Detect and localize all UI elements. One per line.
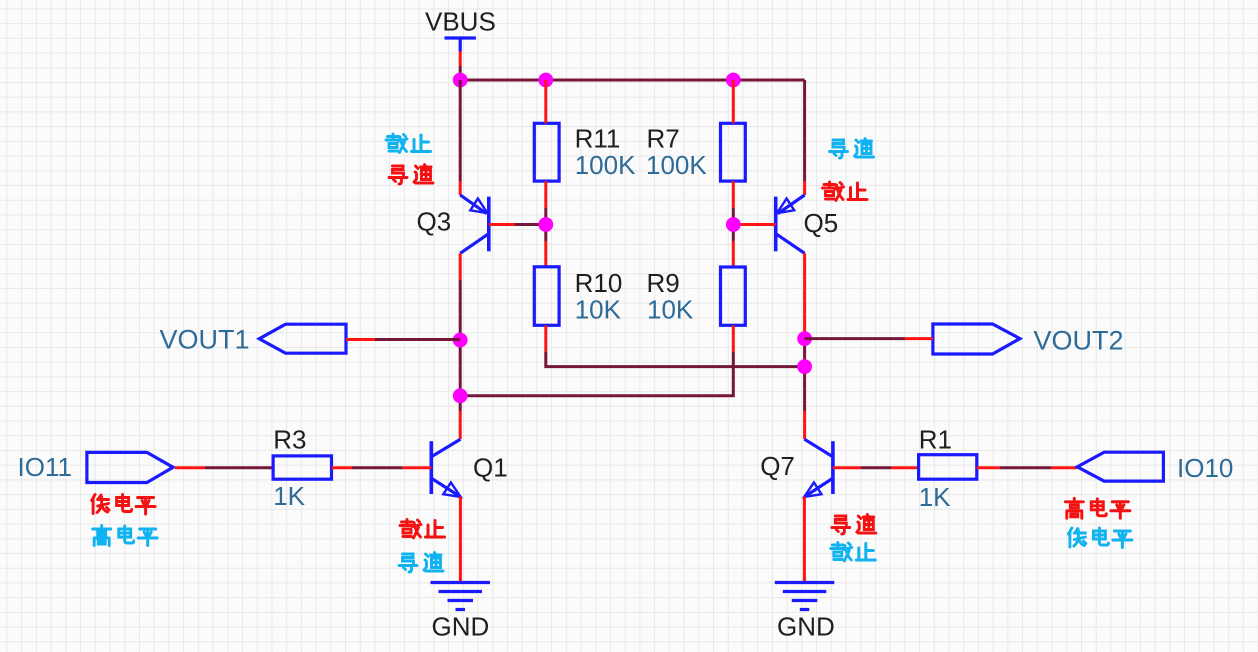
svg-text:10K: 10K	[647, 294, 694, 324]
resistor R11	[534, 123, 559, 181]
wire Q3 collector down to Q1	[459, 253, 462, 439]
annotation 高电平 (red) at IO10	[1065, 498, 1130, 518]
port VOUT1	[259, 324, 346, 353]
annotation 截止 (red) at Q1	[400, 520, 445, 539]
annotation 截止 (cyan) at Q7	[831, 543, 876, 562]
annotation 导通 (cyan) at Q1	[399, 553, 443, 573]
annotation 导通 (red) at Q3	[389, 165, 433, 185]
resistor R3	[273, 456, 331, 479]
svg-text:GND: GND	[777, 612, 835, 642]
port IO10	[1077, 452, 1163, 481]
svg-text:1K: 1K	[919, 482, 951, 512]
svg-text:IO11: IO11	[18, 452, 72, 482]
junction node rail-R11	[538, 73, 553, 88]
resistor R10	[534, 267, 559, 326]
wire Q5 collector down to Q7	[803, 253, 806, 439]
annotation 高电平 (cyan) at IO11	[93, 526, 158, 546]
wire Q7 emitter to GND	[803, 497, 806, 581]
wire R7 to Q5 base node	[732, 181, 735, 267]
wire R1 to IO10	[977, 466, 1078, 469]
wire R9 bottom cross-couple to Q1 collector node	[460, 325, 733, 396]
annotation 导通 (cyan) at Q5	[830, 139, 874, 159]
wire R3 to Q1 base	[332, 466, 432, 469]
svg-text:1K: 1K	[273, 481, 305, 511]
annotation 导通 (red) at Q7	[832, 515, 876, 535]
ground GND (left)	[431, 583, 491, 610]
svg-text:VOUT1: VOUT1	[160, 325, 250, 355]
ground GND (right)	[775, 583, 835, 610]
svg-text:100K: 100K	[575, 150, 636, 180]
svg-text:VBUS: VBUS	[425, 7, 496, 37]
wire Q3 base to node	[489, 223, 546, 226]
annotation 截止 (cyan) at Q3	[386, 134, 431, 153]
wire Q7 base to R1	[833, 466, 919, 469]
wire VBUS stem	[459, 52, 462, 81]
svg-text:Q5: Q5	[804, 208, 839, 238]
svg-text:10K: 10K	[575, 294, 622, 324]
svg-text:GND: GND	[432, 612, 490, 642]
transistor Q7	[804, 439, 833, 497]
svg-text:Q1: Q1	[473, 453, 508, 483]
resistor R7	[721, 123, 746, 181]
junction node VOUT1	[453, 333, 468, 348]
wire Q5 base to node	[733, 223, 775, 226]
junction node rail-R7	[726, 73, 741, 88]
wire right rail drop to Q5 emitter	[803, 80, 806, 195]
wire node to VOUT2	[805, 337, 933, 340]
port VOUT2	[933, 324, 1020, 354]
wire Q1 emitter to GND	[459, 497, 462, 581]
junction node rail-left	[453, 73, 468, 88]
wire IO11 to R3	[175, 466, 273, 469]
junction node Q1 collector cross	[453, 388, 468, 403]
svg-text:Q3: Q3	[417, 207, 452, 237]
annotation 截止 (red) at Q5	[823, 182, 868, 201]
svg-text:IO10: IO10	[1177, 453, 1233, 483]
junction node Q7 collector cross	[797, 359, 812, 374]
wire left rail drop to Q3 emitter	[459, 80, 462, 195]
resistor R9	[721, 267, 746, 325]
annotation 低电平 (red) at IO11	[92, 495, 156, 515]
wire R11 to Q3 base node	[544, 181, 547, 267]
transistor Q5	[776, 195, 805, 253]
wire R10 bottom cross-couple to Q7 collector node	[546, 325, 805, 366]
wire rail to R7	[732, 80, 735, 123]
wire top rail	[460, 79, 804, 82]
svg-text:R7: R7	[647, 124, 680, 154]
junction node VOUT2	[797, 331, 812, 346]
junction node Q3 base	[538, 217, 553, 232]
svg-text:R11: R11	[575, 124, 621, 154]
svg-text:R3: R3	[273, 425, 306, 455]
svg-text:100K: 100K	[646, 150, 707, 180]
svg-text:R1: R1	[919, 425, 952, 455]
svg-text:VOUT2: VOUT2	[1034, 326, 1124, 356]
wire VOUT1 to node	[346, 338, 460, 341]
transistor Q1	[431, 439, 460, 497]
svg-text:Q7: Q7	[760, 451, 795, 481]
annotation 低电平 (cyan) at IO10	[1068, 528, 1132, 548]
port IO11	[87, 452, 173, 482]
junction node Q5 base	[726, 217, 741, 232]
wire rail to R11	[544, 80, 547, 123]
power flag VBUS	[445, 38, 476, 52]
transistor Q3	[460, 195, 489, 253]
resistor R1	[919, 455, 977, 480]
